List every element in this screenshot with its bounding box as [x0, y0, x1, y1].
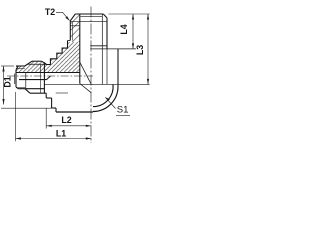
body step horizontal 2 [52, 107, 56, 109]
dim ext L1 left [15, 92, 17, 141]
body step horizontal 1 [46, 97, 51, 99]
top port chamfer base line [81, 16, 103, 18]
body inner line [56, 92, 68, 94]
body inner corner arc [93, 84, 113, 106]
left hex cone right [42, 61, 47, 64]
top port thread line [70, 21, 107, 23]
arrow L1 left [16, 137, 22, 139]
svg-text:L4: L4 [119, 24, 129, 34]
hex top and L4 extension [90, 48, 136, 50]
dim ext D1 bottom long [1, 107, 52, 109]
svg-text:S1: S1 [117, 105, 129, 116]
left hex chamfer cone bottom [25, 89, 30, 94]
left port face inner edge [14, 74, 16, 85]
body bottom [56, 111, 93, 113]
top port right chamfer [103, 14, 107, 18]
left port face chamfer bottom [16, 87, 18, 89]
arrow L3 top [147, 14, 149, 20]
top port bore right [101, 14, 103, 84]
bore drill cone [80, 84, 92, 93]
top port face [75, 13, 103, 15]
arrow S1 leader [105, 97, 110, 101]
top port chamfer section line [70, 25, 80, 27]
arrow T2 leader [65, 16, 69, 20]
leader S1 [105, 97, 115, 108]
dim ext L2 left [45, 108, 47, 128]
dim line L1 [16, 138, 92, 140]
left port thread root bottom [16, 87, 26, 89]
svg-text:L1: L1 [56, 129, 66, 139]
top port left chamfer [70, 14, 75, 21]
dim line L2 [46, 125, 91, 127]
dim line L4 [132, 14, 134, 49]
hatch top port left wall [70, 14, 80, 42]
left hex bottom [30, 92, 46, 94]
centerline horizontal left port axis [7, 75, 93, 77]
left port chamfer cone top [25, 61, 32, 66]
dim line L3 [147, 14, 149, 84]
left hex facet [40, 64, 42, 93]
left bore cone [47, 76, 51, 80]
S1 underline [116, 114, 130, 116]
top port left OD [69, 21, 71, 41]
top port bore left [79, 14, 81, 84]
svg-text:L3: L3 [135, 45, 145, 55]
left port bore bottom [19, 79, 47, 81]
top port thread root [71, 22, 73, 41]
body outer corner arc [93, 87, 118, 112]
dim line D1 [3, 66, 5, 105]
left port face chamfer top [16, 66, 18, 70]
arrow L2 right [86, 125, 92, 127]
arrow L4 bottom [132, 43, 134, 49]
hex facet line right [106, 49, 108, 85]
left hex chamfer base line [27, 63, 47, 65]
left port face [15, 70, 17, 87]
svg-text:D1: D1 [3, 76, 13, 87]
left hex top [32, 60, 42, 62]
left hex right edge [43, 63, 45, 93]
left port thread end [25, 73, 27, 88]
left port bore top [16, 72, 80, 74]
body step vertical 2 [55, 108, 57, 112]
left port thread root top [16, 67, 25, 69]
top port shoulder [90, 45, 107, 47]
left port OD top [16, 65, 25, 67]
staircase [46, 41, 67, 65]
arrow D1 top [2, 66, 4, 72]
centerline vertical top port axis [90, 7, 92, 144]
arrow L2 left [46, 125, 52, 127]
arrow L1 right [86, 137, 92, 139]
body groove vertical [45, 93, 47, 98]
arrow D1 bottom [2, 99, 4, 105]
left port OD bottom [18, 88, 44, 90]
top port relief hook [68, 40, 71, 42]
dim ext top face [108, 13, 149, 15]
svg-text:T2: T2 [45, 7, 55, 17]
bore depth line [44, 83, 149, 85]
svg-text:L2: L2 [61, 115, 71, 125]
body step vertical 1 [51, 98, 53, 108]
hatch body section [16, 42, 80, 73]
leader T2 [56, 12, 70, 20]
top port right OD [106, 18, 108, 49]
bore countersink cone [80, 62, 92, 84]
arrow L4 top [132, 14, 134, 20]
dim ext D1 top [1, 65, 14, 67]
arrow L3 bottom [147, 79, 149, 85]
body right edge [117, 49, 119, 87]
